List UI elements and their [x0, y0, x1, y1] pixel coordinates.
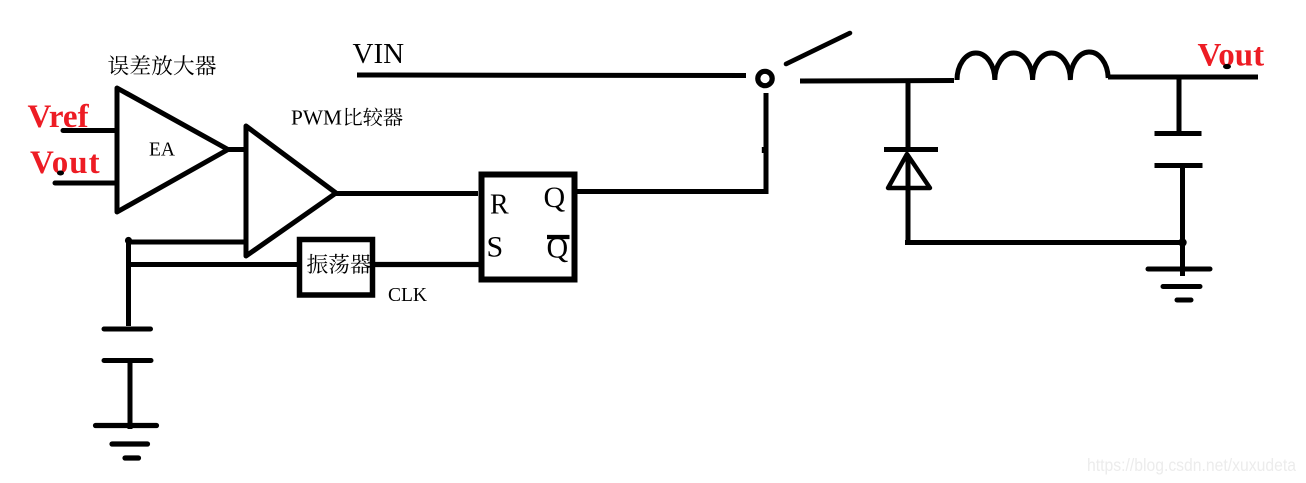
op-amp U1 error amplifier EA triangle [117, 88, 228, 212]
label 振荡器 (oscillator) [307, 254, 371, 274]
capacitor C2 [1155, 134, 1203, 166]
svg-text:CLK: CLK [388, 285, 427, 306]
wire bottom ground rail (right) [905, 240, 1185, 245]
stray pen dot on latch left edge [481, 250, 485, 254]
label 误差放大器 (error amplifier title) [108, 55, 216, 75]
wire C2 to ground rail [1180, 168, 1185, 243]
wire C1 to ground GND1 [128, 363, 133, 429]
wire feedback node down to capacitor C1 [126, 240, 131, 326]
svg-text:Q: Q [544, 181, 566, 214]
wire EA output to PWM comparator [225, 147, 247, 152]
capacitor C1 [104, 329, 151, 361]
wire feedback upper (node to comparator inverting input) [127, 240, 245, 245]
svg-text:S: S [487, 231, 504, 264]
wire PWM output to R input [336, 191, 478, 196]
junction dot feedback node [125, 237, 132, 244]
wire Q output to switch (vertical riser) [764, 93, 769, 194]
stray ink dot under Vout [57, 171, 64, 176]
RS latch U3 box [482, 175, 575, 280]
svg-text:https://blog.csdn.net/xuxudeta: https://blog.csdn.net/xuxudeta [1087, 455, 1296, 475]
wire Vout input [55, 181, 117, 186]
svg-text:VIN: VIN [353, 38, 405, 70]
wire VIN rail to switch [357, 73, 746, 79]
switch S1 lever [786, 33, 850, 64]
wire diode anode to ground rail [906, 155, 911, 241]
stray ink dot under output Vout [1223, 64, 1231, 69]
svg-text:Vout: Vout [30, 145, 101, 181]
junction dot ground rail / C2 [1178, 238, 1186, 246]
ground GND1 [96, 426, 157, 459]
oscillator box U4 [300, 240, 373, 296]
pin label Q-bar [547, 232, 570, 265]
pen tick on riser [762, 147, 764, 153]
svg-text:Vout: Vout [1198, 38, 1265, 74]
svg-text:PWM: PWM [291, 106, 342, 130]
switch S1 contact circle [758, 71, 772, 85]
diode D1 (freewheeling, cathode up) [884, 150, 938, 189]
wire feedback lower (node to oscillator input) [127, 262, 301, 267]
wire Vout node down to capacitor C2 [1177, 78, 1182, 133]
svg-text:R: R [490, 190, 509, 221]
ground GND2 [1148, 243, 1210, 300]
comparator U2 PWM triangle [246, 126, 336, 256]
wire Q output to switch (horizontal) [577, 189, 769, 194]
wire inductor to Vout node [1108, 75, 1258, 80]
label PWM比较器 (PWM comparator title) [291, 106, 403, 130]
inductor L1 (4 loops) [957, 52, 1108, 80]
svg-text:EA: EA [149, 140, 175, 161]
wire switch to diode/inductor node [800, 78, 954, 84]
pen tick at inductor start [957, 66, 959, 79]
wire Vref input [63, 128, 117, 133]
wire oscillator output to S input [375, 262, 483, 267]
wire diode cathode up to switch node [906, 81, 911, 152]
